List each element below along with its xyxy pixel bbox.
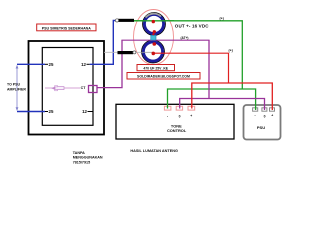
svg-text:SOLDIRADEM.BLOGSPOT.COM: SOLDIRADEM.BLOGSPOT.COM [137, 75, 190, 79]
svg-text:-: - [255, 113, 256, 117]
wire red from C2 to right [153, 53, 229, 83]
grey lead line to capacitor C2 [104, 51, 141, 53]
connector plug bar to capacitor C1 [115, 19, 134, 22]
watermark box SOLDIRADEM.BLOGSPOT.COM [127, 73, 200, 80]
wire green bus to tone control and psu [168, 89, 256, 110]
tick 12 bottom [88, 111, 94, 113]
svg-text:-: - [167, 114, 168, 118]
svg-text:PSU: PSU [257, 125, 265, 130]
capacitor C2 (bottom, top view) [141, 40, 165, 63]
wire purple top bus [208, 40, 210, 98]
svg-text:TO PSU: TO PSU [7, 83, 20, 87]
dimension arrow TO PSU AMPLIFIER [16, 65, 19, 111]
psu terminal 3 (+) [270, 108, 275, 111]
wire 12V top tap to capacitors (blue) [87, 21, 117, 65]
caption TANPA MENGGUNAKAN 7815/7915 [73, 151, 103, 165]
transformer T1 inner core [42, 48, 93, 126]
svg-text:0: 0 [179, 114, 181, 118]
svg-text:470 UF 25V_KE: 470 UF 25V_KE [143, 66, 168, 70]
wire CT to purple bus [97, 40, 122, 87]
svg-text:+: + [190, 114, 192, 118]
svg-text:25: 25 [49, 62, 54, 67]
svg-text:OUT +- 16 VDC: OUT +- 16 VDC [175, 23, 209, 28]
wire purple bus to tone control and psu [180, 99, 265, 111]
psu terminal 1 (-) [253, 108, 258, 111]
psu box [244, 105, 281, 140]
svg-text:0: 0 [264, 115, 266, 119]
wire +16V green from C1 to right [134, 21, 242, 89]
label TO PSU AMPLIFIER [7, 83, 26, 92]
svg-text:CONTROL: CONTROL [167, 128, 187, 133]
svg-text:PSU SIMETRIS SEDERHANA: PSU SIMETRIS SEDERHANA [42, 26, 92, 30]
psu terminal labels [255, 113, 274, 118]
transformer T1 outer body [29, 41, 105, 135]
svg-text:25: 25 [49, 109, 54, 114]
tone terminal 3 (+) [188, 106, 195, 110]
svg-text:+: + [271, 113, 273, 117]
cyan junction connector between C1 and C2 [151, 33, 156, 40]
purple line across cap junction [121, 39, 209, 41]
svg-text:(+): (+) [229, 48, 233, 52]
svg-text:TANPA: TANPA [73, 151, 85, 155]
psu terminal 2 (0) [262, 108, 267, 111]
title box PSU SIMETRIS SEDERHANA [37, 24, 96, 31]
label TONE CONTROL [167, 123, 187, 133]
svg-text:(+): (+) [220, 17, 224, 21]
CT terminal square [89, 86, 98, 93]
svg-text:12: 12 [82, 109, 87, 114]
value box 470 UF 25V [137, 65, 175, 71]
svg-text:7815/7915: 7815/7915 [73, 160, 90, 164]
highlight ellipse around capacitors [134, 10, 174, 65]
connector plug bar to capacitor C2 [118, 51, 136, 54]
wire 25V top tap [17, 63, 48, 65]
svg-text:12: 12 [81, 62, 86, 67]
svg-text:(AT+): (AT+) [181, 36, 189, 40]
wire red bus to tone control and psu [192, 83, 272, 110]
tone terminal 1 (-) [164, 106, 171, 110]
tone terminal 2 (0) [176, 106, 182, 110]
capacitor C1 (top, top view) [134, 13, 174, 36]
svg-text:MENGGUNAKAN: MENGGUNAKAN [73, 156, 103, 160]
fuse/plug symbol on CT line [45, 86, 80, 91]
wire 25V bottom tap [17, 111, 48, 113]
tone terminal labels [167, 114, 192, 118]
svg-text:CT: CT [81, 86, 87, 90]
tone control box [116, 104, 234, 139]
svg-text:AMPLIFIER: AMPLIFIER [7, 88, 26, 92]
svg-text:HASIL LUMATAN ANTENG: HASIL LUMATAN ANTENG [130, 149, 178, 153]
